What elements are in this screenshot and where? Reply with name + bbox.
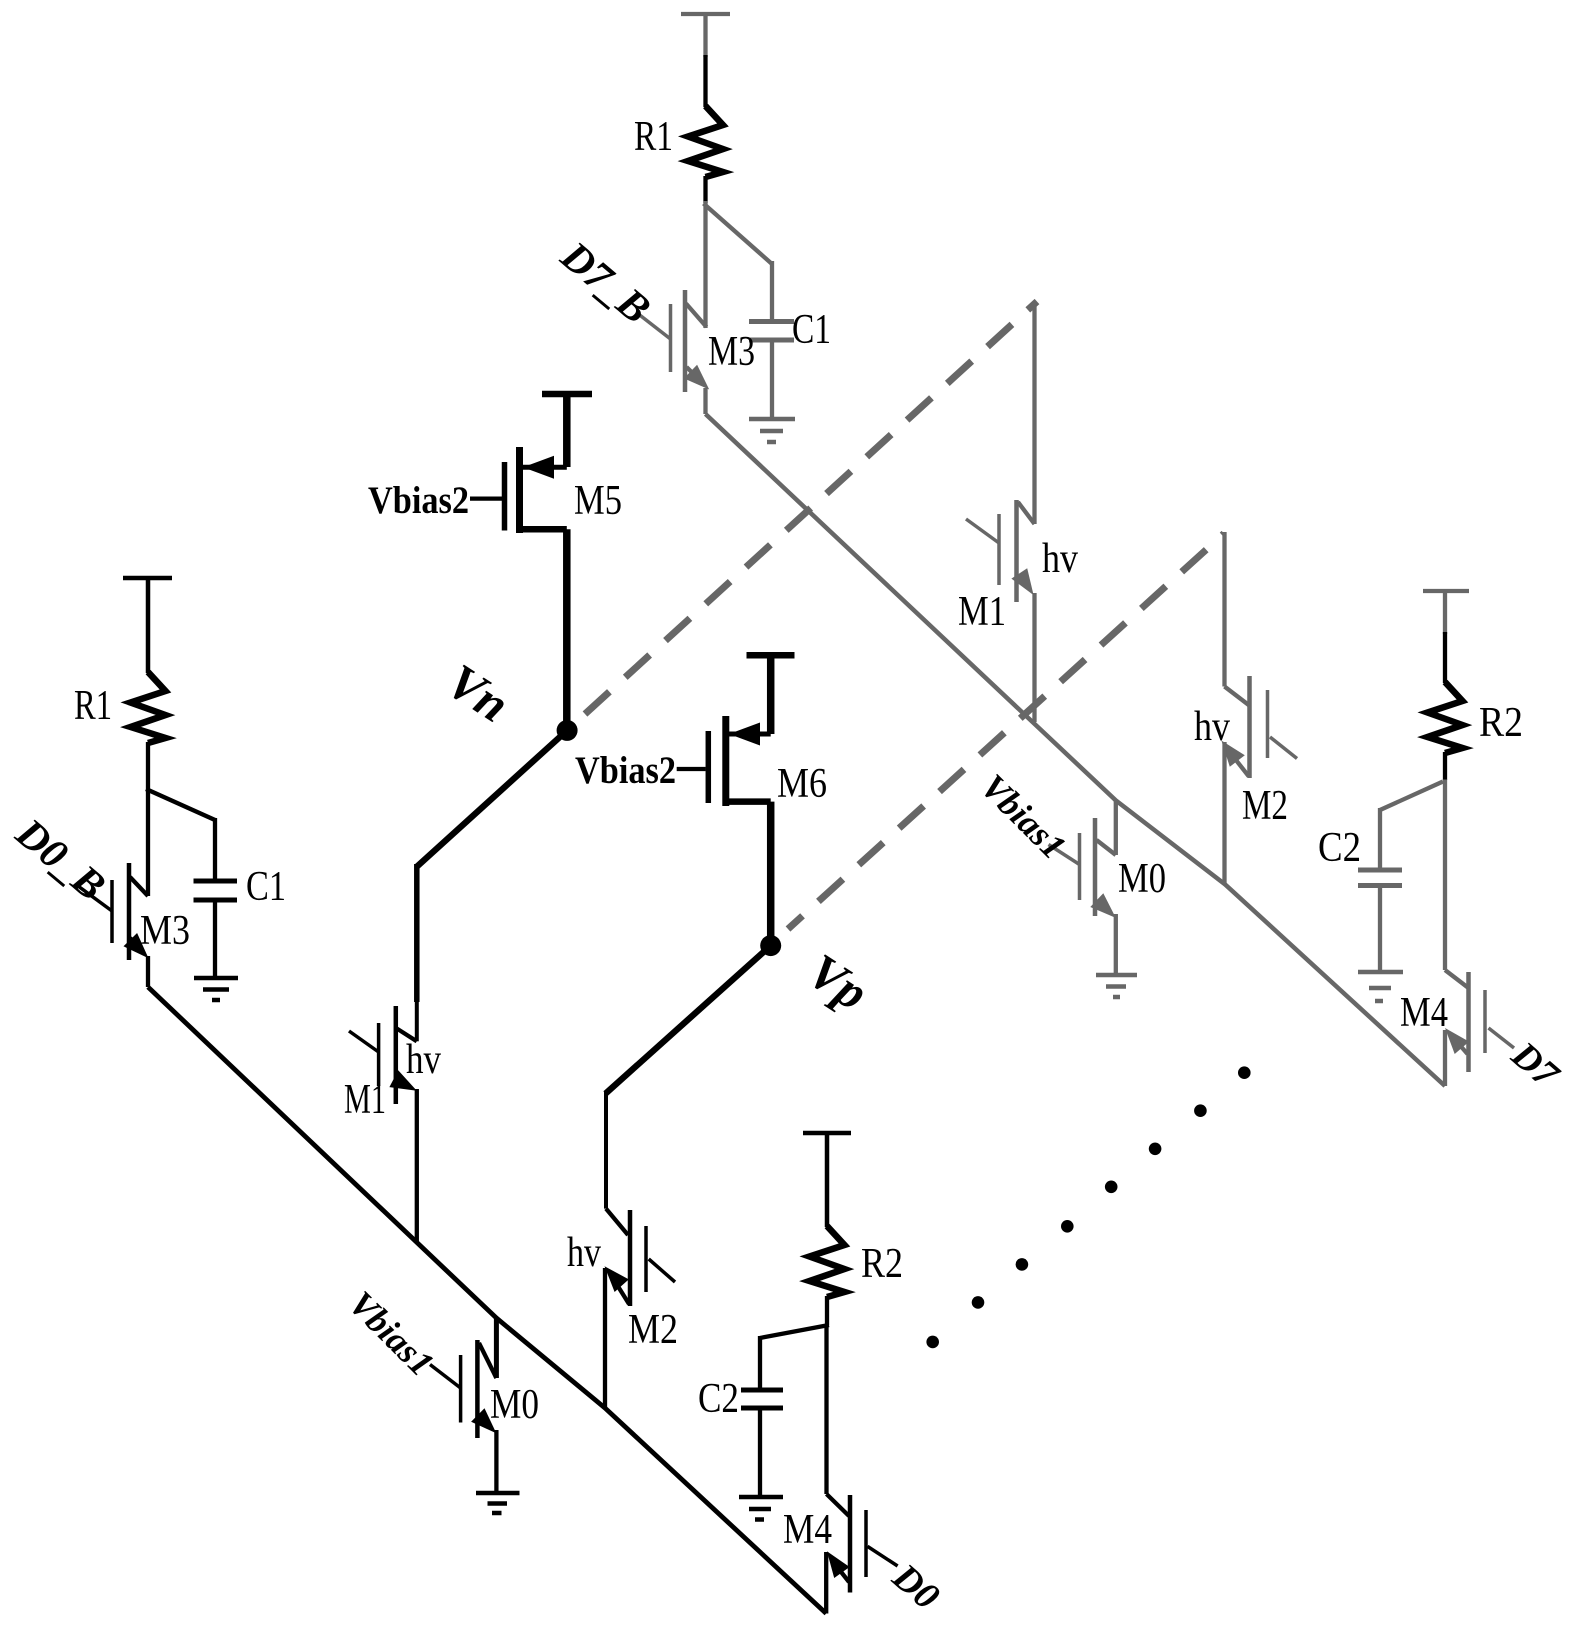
wire (C1 top lead) bbox=[770, 261, 774, 321]
ground (below C1, gray slice) bbox=[749, 419, 795, 442]
wire (Vn to M1 drain, bold bend) bbox=[417, 730, 567, 866]
supply bar (gray slice R2 top) bbox=[1423, 591, 1469, 634]
svg-text:C1: C1 bbox=[792, 307, 831, 353]
wire (node to C2 top) bbox=[760, 1325, 829, 1338]
svg-text:M0: M0 bbox=[1118, 856, 1166, 902]
svg-text:C1: C1 bbox=[246, 864, 286, 910]
wire (M3 source stub) bbox=[146, 956, 150, 987]
wire (C1 top lead) bbox=[213, 818, 217, 881]
wire (C2 top lead) bbox=[1378, 808, 1382, 870]
node Vn (junction dot) bbox=[557, 720, 578, 741]
transistor M4 (black slice, gate driven by D0) bbox=[827, 1494, 898, 1593]
wire (C1 bottom to ground) bbox=[770, 340, 774, 419]
supply bar (above M6) bbox=[747, 655, 795, 734]
wire (Vp to M2 drain, bold bend) bbox=[606, 946, 771, 1094]
wire (M6 drain to node Vp) bbox=[767, 802, 775, 946]
svg-text:hv: hv bbox=[1194, 704, 1230, 750]
wire (M2 drain vertical) bbox=[604, 1091, 608, 1209]
svg-text:M3: M3 bbox=[140, 908, 190, 954]
svg-text:M0: M0 bbox=[490, 1382, 539, 1428]
svg-text:R2: R2 bbox=[1479, 700, 1523, 746]
svg-text:hv: hv bbox=[406, 1037, 441, 1083]
resistor R1 (black slice) bbox=[131, 672, 166, 743]
wire (C1 bottom to ground) bbox=[213, 900, 217, 978]
wire (C2 top lead) bbox=[758, 1336, 762, 1390]
svg-text:M3: M3 bbox=[708, 329, 755, 375]
supply bar (above M5) bbox=[542, 394, 592, 467]
wire (supply to R1, black upper part) bbox=[703, 55, 707, 107]
ellipsis dots (repeated bit slices) bbox=[926, 1066, 1250, 1348]
wire (R1 to M3 drain) bbox=[146, 742, 150, 896]
svg-text:Vbias2: Vbias2 bbox=[368, 479, 469, 522]
wire (dashed: node Vn to gray-slice M1 drain) bbox=[585, 302, 1037, 715]
wire (gray M4 source stub to rail end) bbox=[1443, 1030, 1447, 1086]
wire (R2 node down to gray M4 drain) bbox=[1443, 780, 1447, 971]
transistor M2 (gray slice, hv) bbox=[1221, 676, 1297, 778]
svg-text:M1: M1 bbox=[344, 1077, 386, 1123]
wire (gray M1 source vertical to rail) bbox=[1032, 593, 1036, 722]
transistor M6 (PMOS, gate Vbias2) bbox=[677, 716, 771, 806]
wire (gray M0 source to ground) bbox=[1114, 914, 1118, 975]
svg-text:C2: C2 bbox=[1318, 825, 1361, 871]
wire (node to M3 drain, gray) bbox=[703, 201, 707, 328]
resistor R2 (gray slice, drawn black) bbox=[1428, 682, 1463, 753]
wire (M2 source vertical to rail) bbox=[603, 1268, 607, 1408]
wire (supply to R2, black upper part) bbox=[1443, 632, 1447, 683]
svg-text:M2: M2 bbox=[1242, 783, 1288, 829]
transistor M3 (gray slice, gate driven by D7_B) bbox=[639, 290, 709, 392]
ground (below gray C2) bbox=[1358, 972, 1403, 1001]
svg-text:M6: M6 bbox=[777, 761, 827, 807]
svg-text:M1: M1 bbox=[958, 589, 1006, 635]
wire (M4 source stub to rail end) bbox=[824, 1552, 828, 1614]
wire (node to C2 top) bbox=[1380, 782, 1443, 811]
svg-text:R1: R1 bbox=[634, 114, 673, 160]
wire (node to C1 top) bbox=[146, 789, 215, 820]
wire (R2 node down to M4 drain) bbox=[824, 1324, 828, 1494]
transistor M1 (gray slice, hv) bbox=[966, 500, 1035, 602]
capacitor C1 (gray slice) bbox=[749, 322, 794, 341]
ground (below gray M0) bbox=[1096, 975, 1137, 997]
capacitor C1 (black slice) bbox=[194, 881, 238, 900]
transistor M0 (black slice, gate Vbias1) bbox=[430, 1340, 496, 1438]
supply bar (black slice R2 top) bbox=[803, 1133, 851, 1227]
transistor M5 (PMOS, gate Vbias2) bbox=[470, 447, 567, 533]
node Vp (junction dot) bbox=[760, 935, 781, 956]
wire (node to C1 top) bbox=[704, 204, 773, 265]
capacitor C2 (gray slice) bbox=[1358, 870, 1402, 886]
ground (below black C1) bbox=[194, 978, 238, 1000]
svg-text:M4: M4 bbox=[783, 1507, 832, 1553]
svg-text:M5: M5 bbox=[574, 478, 622, 524]
transistor M4 (gray slice, gate driven by D7) bbox=[1445, 970, 1514, 1072]
supply bar (gray slice R1 top) bbox=[681, 14, 730, 57]
ground (below black M0) bbox=[476, 1493, 520, 1513]
wire (gray M1 drain vertical) bbox=[1032, 302, 1036, 524]
wire (R2 to node, black lower part) bbox=[1443, 752, 1447, 780]
svg-text:hv: hv bbox=[567, 1230, 601, 1276]
wire (M1 source vertical to rail) bbox=[415, 1089, 419, 1242]
svg-text:R2: R2 bbox=[861, 1241, 903, 1287]
svg-text:M2: M2 bbox=[628, 1307, 678, 1353]
wire (M1 drain vertical) bbox=[414, 864, 420, 1002]
wire (C2 bottom to ground) bbox=[758, 1408, 762, 1497]
capacitor C2 (black slice) bbox=[741, 1390, 783, 1408]
wire (M0 drain vertical from rail) bbox=[494, 1318, 499, 1378]
svg-text:M4: M4 bbox=[1400, 990, 1448, 1036]
wire (M5 drain to node Vn) bbox=[563, 529, 571, 730]
wire (R1 to node, black lower part) bbox=[703, 176, 707, 203]
transistor M1 (black slice, hv) bbox=[349, 1006, 417, 1104]
wire (M0 source to ground) bbox=[494, 1430, 498, 1493]
transistor M2 (black slice, hv) bbox=[605, 1209, 676, 1306]
wire (M3 source stub) bbox=[703, 388, 707, 414]
wire (C2 bottom to ground) bbox=[1378, 885, 1382, 972]
resistor R2 (black slice) bbox=[810, 1226, 845, 1297]
ground (below black C2) bbox=[739, 1497, 783, 1520]
wire (gray M2 drain vertical) bbox=[1222, 532, 1226, 687]
wire (R2 to M4 drain node) bbox=[825, 1296, 829, 1325]
resistor R1 (gray slice, drawn black) bbox=[688, 106, 723, 177]
wire (gray M0 drain vertical from rail) bbox=[1114, 800, 1118, 855]
svg-text:hv: hv bbox=[1042, 536, 1078, 582]
supply bar (black slice R1 top) bbox=[123, 578, 172, 673]
wire (gray slice rail: M3 source to M0 drain to M2 source tap to M4) bbox=[706, 414, 1446, 1086]
wire (black slice rail: M3 source to M0 drain to M2 source tap to M4 drain) bbox=[148, 987, 826, 1614]
transistor M0 (gray slice, gate Vbias1) bbox=[1049, 818, 1116, 918]
wire (gray M2 source vertical to rail) bbox=[1222, 742, 1226, 884]
transistor M3 (black slice, gate driven by D0_B) bbox=[78, 863, 149, 960]
wire (dashed: node Vp to gray-slice M2 drain) bbox=[788, 534, 1224, 930]
svg-text:C2: C2 bbox=[698, 1376, 739, 1422]
svg-text:R1: R1 bbox=[74, 683, 112, 729]
svg-text:Vbias2: Vbias2 bbox=[575, 749, 676, 792]
